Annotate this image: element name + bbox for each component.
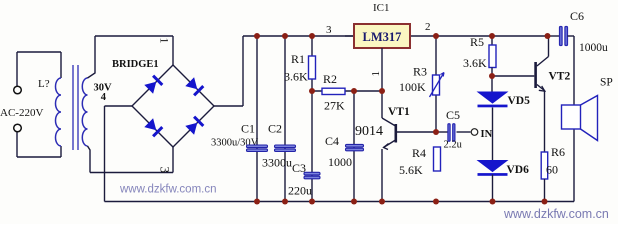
svg-text:2.2u: 2.2u	[444, 140, 463, 151]
svg-text:L?: L?	[38, 78, 50, 90]
svg-text:AC-220V: AC-220V	[0, 107, 43, 119]
svg-text:100K: 100K	[399, 80, 426, 94]
svg-text:220u: 220u	[288, 184, 312, 198]
svg-text:3.6K: 3.6K	[284, 70, 308, 84]
svg-text:SP: SP	[600, 77, 613, 89]
svg-text:LM317: LM317	[363, 30, 402, 44]
svg-text:C1: C1	[241, 122, 255, 136]
svg-text:R1: R1	[291, 52, 305, 66]
svg-text:BRIDGE1: BRIDGE1	[112, 59, 159, 70]
svg-text:VT1: VT1	[388, 106, 410, 118]
svg-text:3.6K: 3.6K	[463, 56, 487, 70]
svg-text:C6: C6	[570, 9, 584, 23]
svg-text:1000: 1000	[328, 155, 352, 169]
svg-text:www.dzkfw.com.cn: www.dzkfw.com.cn	[503, 207, 609, 221]
svg-text:C4: C4	[325, 134, 339, 148]
svg-text:2: 2	[425, 21, 431, 33]
svg-text:1: 1	[158, 38, 172, 44]
svg-text:1000u: 1000u	[579, 42, 608, 54]
svg-text:www.dzkfw.com.cn: www.dzkfw.com.cn	[119, 184, 217, 196]
svg-text:27K: 27K	[324, 99, 345, 113]
svg-text:C5: C5	[446, 108, 460, 122]
svg-text:3: 3	[158, 167, 173, 174]
svg-text:R4: R4	[412, 146, 426, 160]
svg-text:3300u: 3300u	[262, 156, 292, 170]
svg-text:9014: 9014	[355, 124, 383, 139]
svg-text:IN: IN	[481, 129, 493, 140]
svg-text:R2: R2	[323, 72, 337, 86]
svg-text:R3: R3	[413, 65, 427, 79]
svg-text:4: 4	[101, 92, 107, 103]
svg-text:IC1: IC1	[373, 2, 390, 14]
svg-text:VD6: VD6	[507, 164, 530, 176]
svg-text:VT2: VT2	[549, 71, 571, 83]
svg-text:R6: R6	[551, 145, 565, 159]
svg-text:5.6K: 5.6K	[399, 163, 423, 177]
svg-text:1: 1	[370, 71, 382, 77]
svg-text:VD5: VD5	[508, 95, 531, 107]
svg-text:3: 3	[326, 24, 332, 36]
svg-text:60: 60	[546, 163, 558, 177]
svg-text:R5: R5	[470, 35, 484, 49]
svg-text:C2: C2	[268, 122, 282, 136]
svg-text:C3: C3	[292, 161, 306, 175]
